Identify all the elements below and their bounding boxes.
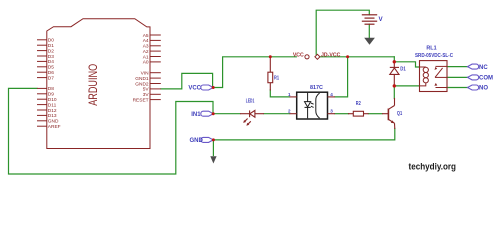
svg-text:5V: 5V	[143, 87, 150, 93]
svg-text:D13: D13	[48, 113, 57, 119]
svg-text:D7: D7	[48, 75, 54, 81]
svg-text:D6: D6	[48, 70, 54, 76]
svg-text:GND2: GND2	[135, 81, 149, 87]
svg-text:IN1: IN1	[191, 112, 201, 118]
svg-text:D12: D12	[48, 108, 57, 114]
svg-text:A5: A5	[143, 33, 149, 39]
svg-text:RESET: RESET	[133, 97, 149, 103]
svg-text:D2: D2	[48, 48, 54, 54]
svg-text:VCC: VCC	[188, 86, 201, 92]
svg-text:1: 1	[288, 92, 291, 97]
svg-text:GND1: GND1	[135, 76, 149, 82]
svg-text:D11: D11	[48, 102, 57, 108]
svg-text:D3: D3	[48, 54, 54, 60]
svg-text:A0: A0	[143, 60, 149, 66]
svg-text:VIN: VIN	[141, 71, 150, 77]
svg-text:R1: R1	[274, 75, 279, 81]
svg-text:817C: 817C	[310, 85, 323, 91]
svg-text:GND: GND	[48, 119, 59, 125]
svg-text:NC: NC	[479, 65, 488, 71]
svg-text:COM: COM	[479, 76, 493, 82]
svg-text:3V: 3V	[143, 92, 150, 98]
svg-text:A3: A3	[143, 44, 149, 50]
svg-text:2: 2	[288, 109, 291, 114]
svg-text:A1: A1	[143, 54, 149, 60]
svg-text:NO: NO	[479, 86, 488, 92]
svg-text:3: 3	[330, 109, 333, 114]
svg-text:AREF: AREF	[48, 124, 61, 130]
svg-text:LED1: LED1	[246, 98, 255, 104]
svg-text:D0: D0	[48, 38, 54, 44]
svg-text:D10: D10	[48, 97, 57, 103]
svg-text:ARDUINO: ARDUINO	[86, 64, 100, 106]
svg-text:D8: D8	[48, 86, 54, 92]
svg-text:GND: GND	[189, 138, 203, 144]
svg-text:D9: D9	[48, 92, 54, 98]
svg-text:VCC: VCC	[293, 52, 304, 58]
svg-text:D1: D1	[400, 67, 406, 73]
svg-text:Q1: Q1	[397, 111, 402, 117]
svg-text:D1: D1	[48, 43, 54, 49]
svg-text:D5: D5	[48, 65, 54, 71]
svg-text:A4: A4	[143, 38, 149, 44]
svg-text:techydiy.org: techydiy.org	[409, 161, 457, 171]
svg-text:4: 4	[330, 92, 333, 97]
svg-text:R2: R2	[356, 101, 361, 107]
svg-text:SRD-05VDC-SL-C: SRD-05VDC-SL-C	[415, 53, 453, 59]
svg-text:A2: A2	[143, 49, 149, 55]
svg-text:D4: D4	[48, 59, 54, 65]
svg-text:RL1: RL1	[426, 45, 436, 51]
svg-text:JD-VCC: JD-VCC	[321, 52, 341, 58]
